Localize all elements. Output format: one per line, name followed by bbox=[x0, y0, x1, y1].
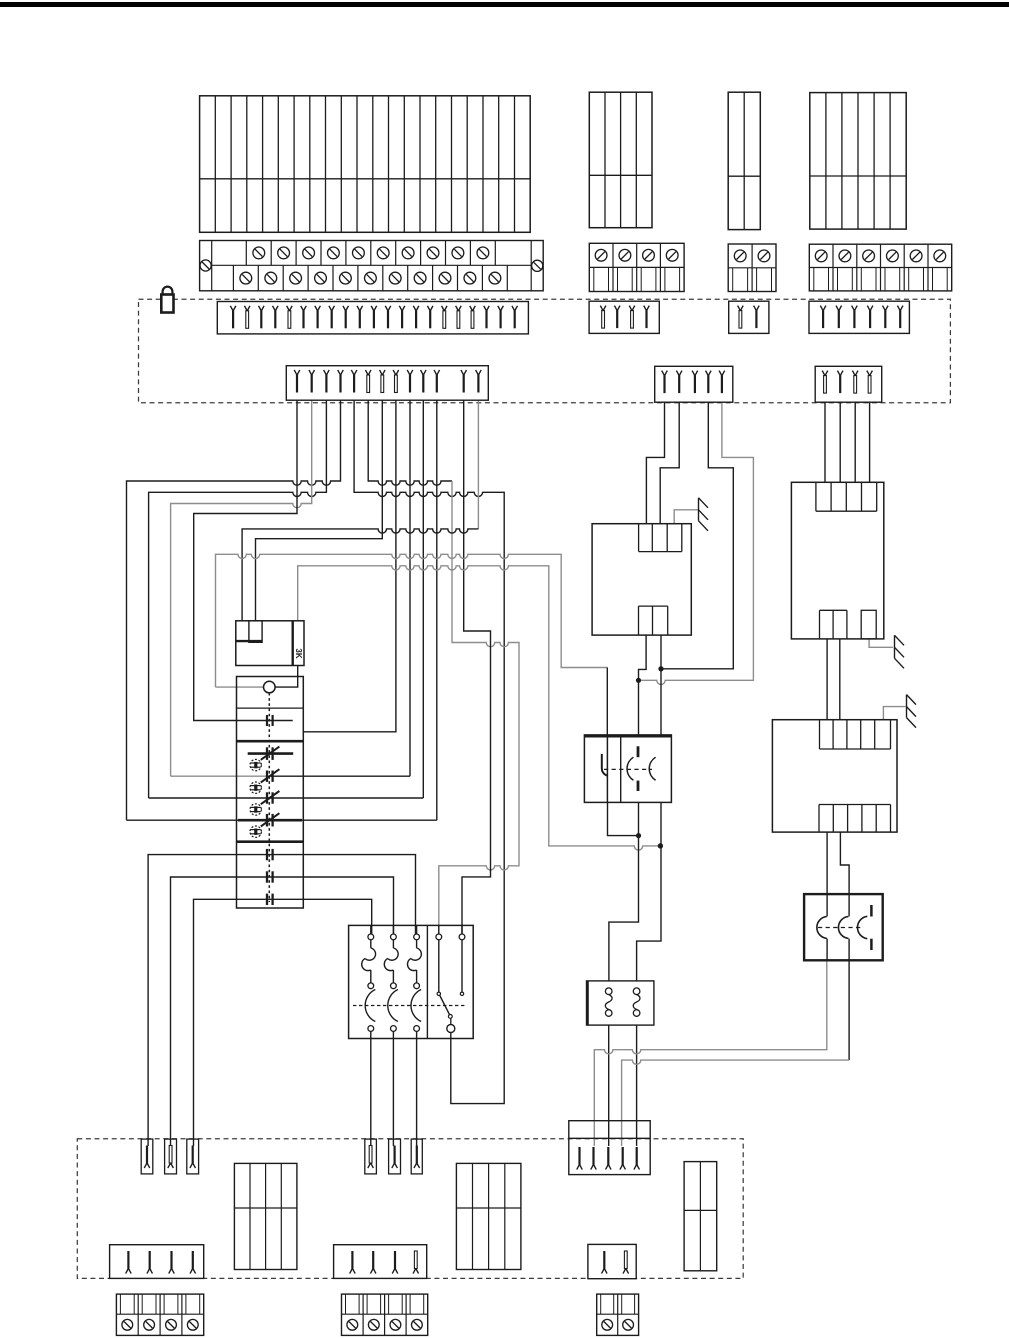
wire grey bus G2 bbox=[298, 566, 661, 850]
wire relay mid down to fuse1 bbox=[609, 802, 639, 991]
wire grey chain to aux switch pole1 bbox=[439, 481, 519, 934]
wire M1 ground lead (grey) bbox=[674, 510, 698, 524]
B1 pin 3 bbox=[324, 370, 330, 376]
wire B2 pin1 to module M1 bbox=[646, 402, 664, 523]
B4 pin 4 bbox=[620, 1164, 626, 1170]
switch pole 2 bbox=[392, 925, 394, 934]
wire switch pole1 bottom to connector bbox=[370, 1031, 372, 1146]
ground symbol at module M2 bbox=[894, 635, 896, 658]
wire lamp row4 bbox=[127, 819, 437, 821]
M2 bottom connector cells bbox=[819, 610, 821, 639]
wire pin7 to ignition module cell2 bbox=[256, 400, 383, 621]
ignition switch rotor circle bbox=[264, 681, 276, 693]
connector B4 bbox=[569, 1121, 650, 1175]
single-pin connector P3 bbox=[187, 1139, 199, 1174]
contactor box bbox=[804, 894, 883, 960]
B1 pin 5 bbox=[351, 370, 357, 376]
wire H3 bus to ignition module cell1 bbox=[242, 529, 478, 621]
connector A3 bbox=[729, 301, 769, 333]
fuse box bbox=[587, 981, 654, 1025]
junction relay out junction bbox=[636, 833, 641, 838]
screw terminal strip X4 bbox=[809, 244, 951, 291]
connector A2 bbox=[589, 301, 659, 333]
A1 pin 8 bbox=[329, 306, 335, 312]
wire M2 ground lead (grey) bbox=[869, 639, 893, 647]
wire relay right down to fuse2 bbox=[637, 802, 661, 991]
wire switch pole2 bottom to connector bbox=[392, 1031, 394, 1146]
wire pin1 to switch contact row left bus bbox=[194, 400, 297, 721]
wire pin12 to aux switch pole2 bbox=[462, 400, 491, 934]
A4 pin 4 bbox=[867, 306, 873, 312]
wire pin3 to lamp-row3 left bus bbox=[149, 400, 327, 798]
screw terminal strip X2 bbox=[589, 243, 684, 291]
B3 pin 3 bbox=[852, 371, 858, 377]
svg-text:3K: 3K bbox=[294, 648, 303, 658]
lamp switch row 1 bbox=[248, 752, 294, 755]
A1 pin 2 bbox=[244, 306, 250, 312]
relay socket arcs bbox=[627, 757, 633, 780]
terminal block TB-C bbox=[234, 1163, 297, 1269]
lamp switch row 3 bbox=[266, 792, 268, 803]
A1 pin 13 bbox=[399, 306, 405, 312]
B4 pin 2 bbox=[591, 1164, 597, 1170]
B3 pin 2 bbox=[837, 371, 843, 377]
wire cam row C to switch pole1 and connector bbox=[194, 899, 372, 1146]
cam contact row 1 bbox=[266, 849, 268, 860]
A1 pin 19 bbox=[484, 306, 490, 312]
B1 pin 2 bbox=[309, 370, 315, 376]
C1 pin 1 bbox=[126, 1268, 132, 1274]
C2 pin 4 bbox=[413, 1268, 419, 1274]
padlock icon bbox=[163, 287, 173, 295]
wire through contactor pole1 bbox=[826, 894, 828, 916]
aux switch actuator bbox=[440, 996, 450, 1015]
wire lamp row3 bbox=[149, 797, 424, 799]
junction B2 pin4 wire junction bbox=[658, 666, 663, 671]
B2 pin 5 bbox=[719, 371, 725, 377]
wire M2 out1 to M3 bbox=[826, 639, 828, 720]
junction grey-G2 to fuse wire bbox=[658, 843, 663, 848]
B1 pin 11 bbox=[434, 370, 440, 376]
wire pin6 bus H1 bbox=[368, 400, 452, 485]
wire M3 ground lead (grey) bbox=[883, 707, 905, 720]
A1 pin 20 bbox=[498, 306, 504, 312]
M3 bottom connector cells bbox=[818, 805, 820, 833]
B4 pin 5 bbox=[634, 1164, 640, 1170]
junction junction out2 bbox=[658, 666, 663, 671]
A1 pin 11 bbox=[371, 306, 377, 312]
single-pin connector P6 bbox=[411, 1139, 422, 1174]
junction grey wire junction bbox=[636, 678, 641, 683]
B3 pin 4 bbox=[867, 371, 873, 377]
harness dashed box (top) bbox=[139, 299, 951, 403]
ground symbol at module M3 bbox=[906, 695, 908, 718]
wire cam row A to switch pole3 and connector bbox=[148, 855, 415, 1146]
relay box bbox=[584, 735, 671, 803]
wire M3 out2 to contactor bbox=[840, 832, 849, 894]
terminal block TB3 bbox=[728, 92, 760, 229]
wire B3 pin4 to module M2 bbox=[869, 402, 871, 482]
A4 pin 1 bbox=[820, 306, 826, 312]
ground symbol at module M1 bbox=[698, 498, 700, 521]
A1 pin 4 bbox=[273, 306, 279, 312]
C2 pin 1 bbox=[350, 1268, 356, 1274]
A1 pin 3 bbox=[259, 306, 265, 312]
B2 pin 1 bbox=[662, 371, 668, 377]
connector A1 bbox=[217, 302, 528, 334]
wire fuse2 out to B4 pin5 bbox=[636, 1014, 638, 1147]
B1 pin 9 bbox=[407, 370, 413, 376]
A1 pin 14 bbox=[413, 306, 419, 312]
module M2 box bbox=[791, 482, 883, 639]
contactor dashed line bbox=[818, 927, 862, 929]
B1 pin 7 bbox=[380, 370, 386, 376]
ignition module 3K box bbox=[236, 621, 304, 666]
connector B1 bbox=[286, 366, 488, 401]
switch pole 1 bbox=[370, 925, 372, 934]
single-pin connector P1 bbox=[141, 1139, 153, 1174]
lamp switch row 2 bbox=[266, 771, 268, 782]
wire B3 pin3 to module M2 bbox=[854, 402, 856, 482]
relay actuation dashed line bbox=[604, 768, 652, 770]
C1 pin 2 bbox=[147, 1268, 153, 1274]
M1 bottom connector cells bbox=[638, 606, 640, 635]
harness dashed box (bottom) bbox=[77, 1139, 743, 1279]
contactor socket arcs bbox=[817, 917, 827, 939]
A4 pin 5 bbox=[883, 306, 889, 312]
connector C3 bbox=[588, 1244, 636, 1278]
B2 pin 2 bbox=[676, 371, 682, 377]
wire pin11 stem bbox=[436, 400, 438, 820]
cam contact row 2 bbox=[266, 871, 268, 882]
A4 pin 6 bbox=[897, 306, 903, 312]
wire pin9 stem bbox=[409, 400, 411, 776]
wire 3K module to ignition circle bbox=[275, 666, 297, 688]
A2 pin 2 bbox=[614, 306, 620, 312]
C2 pin 3 bbox=[392, 1268, 398, 1274]
A4 pin 2 bbox=[836, 306, 842, 312]
screw terminal strip S3 bbox=[597, 1294, 639, 1335]
screw terminal strip X1 bbox=[200, 241, 544, 291]
aux switch contacts bbox=[438, 925, 440, 934]
wire relay feed vertical bbox=[606, 668, 608, 737]
wire cam row B to switch pole2 and connector bbox=[171, 877, 394, 1146]
A1 pin 5 bbox=[287, 306, 293, 312]
ignition switch shaft (dashed) bbox=[268, 693, 270, 902]
B4 pin 1 bbox=[577, 1164, 583, 1170]
A3 pin 2 bbox=[754, 306, 760, 312]
wire contactor out left (grey) bbox=[594, 960, 827, 1146]
terminal block TB4 bbox=[810, 93, 906, 230]
B3 pin 1 bbox=[822, 371, 828, 377]
wire M2 out2 to M3 bbox=[839, 639, 841, 720]
wire G1 into ignition circle bbox=[216, 686, 264, 688]
A2 pin 3 bbox=[629, 306, 635, 312]
C1 pin 4 bbox=[190, 1268, 196, 1274]
terminal block TB-D bbox=[456, 1163, 521, 1269]
B1 pin 1 bbox=[294, 370, 300, 376]
ignition switch block bbox=[237, 677, 304, 909]
wire switch pole3 bottom to connector bbox=[416, 1031, 418, 1146]
wire pin13 stem (grey) bbox=[477, 400, 479, 529]
B2 pin 4 bbox=[706, 371, 712, 377]
M1 top connector cells bbox=[638, 524, 640, 552]
wire M3 out1 to contactor bbox=[826, 832, 828, 894]
A1 pin 15 bbox=[427, 306, 433, 312]
A1 pin 21 bbox=[512, 306, 518, 312]
B1 pin 8 bbox=[393, 370, 399, 376]
switch assembly dashed line bbox=[353, 1005, 466, 1007]
connector C1 bbox=[110, 1245, 204, 1279]
B1 pin 13 bbox=[476, 370, 482, 376]
module M3 box bbox=[772, 720, 897, 832]
B1 pin 10 bbox=[421, 370, 427, 376]
wire pin5 to aux switch common bbox=[354, 400, 504, 1104]
C3 pin 1 bbox=[602, 1268, 608, 1274]
M2 top connector cells bbox=[815, 482, 817, 511]
B1 pin 6 bbox=[365, 370, 371, 376]
A2 pin 4 bbox=[644, 306, 650, 312]
B1 pin 12 bbox=[461, 370, 467, 376]
terminal block TB1 bbox=[200, 96, 531, 233]
connector A4 bbox=[809, 301, 909, 333]
X1 end screws bbox=[200, 260, 211, 271]
wire lamp row2 (right half) bbox=[268, 775, 410, 777]
contact row section2 bbox=[266, 715, 268, 726]
wire pin10 stem bbox=[422, 400, 424, 798]
terminal block TB-E bbox=[684, 1162, 717, 1271]
cam contact row 3 bbox=[266, 894, 268, 905]
wire B3 pin2 to module M2 bbox=[839, 402, 841, 482]
wire pin8 to switch block row bbox=[303, 400, 396, 732]
screw terminal strip X3 bbox=[728, 244, 776, 292]
wire relay contact out bbox=[608, 802, 639, 835]
connector B3 bbox=[815, 366, 882, 402]
single-pin connector P5 bbox=[389, 1139, 401, 1174]
A2 pin 1 bbox=[600, 306, 606, 312]
A1 pin 18 bbox=[470, 306, 476, 312]
motor switch assembly box bbox=[349, 925, 474, 1038]
wire M1 out2 to relay bbox=[660, 635, 662, 736]
A1 pin 17 bbox=[456, 306, 462, 312]
single-pin connector P2 bbox=[165, 1139, 177, 1174]
B1 pin 4 bbox=[338, 370, 344, 376]
relay contact bbox=[606, 736, 608, 802]
wire B2 pin4 down to fuse net bbox=[661, 402, 733, 669]
screw terminal strip S1 bbox=[116, 1294, 203, 1335]
fuse at x=608.7 bbox=[605, 988, 612, 995]
A1 pin 9 bbox=[343, 306, 349, 312]
A1 pin 1 bbox=[230, 306, 236, 312]
wire grey bus G1 to ignition circle and relay bbox=[216, 554, 608, 687]
C3 pin 2 bbox=[623, 1268, 629, 1274]
wire contactor out right bbox=[848, 960, 850, 1060]
top header bar bbox=[0, 2, 1009, 7]
wire pin4 to lamp-row4 left bus bbox=[127, 400, 341, 820]
C1 pin 3 bbox=[169, 1268, 175, 1274]
X1 top row screws bbox=[253, 247, 265, 259]
A1 pin 7 bbox=[315, 306, 321, 312]
screw terminal strip S2 bbox=[342, 1294, 428, 1335]
module M1 box bbox=[592, 524, 691, 635]
lamp switch row 4 bbox=[238, 819, 302, 822]
wire M1 out1 to relay bbox=[639, 635, 647, 736]
M3 top connector cells bbox=[819, 720, 821, 749]
junction grey bus junction bbox=[658, 843, 663, 848]
wire fuse1 out to B4 pin3 bbox=[608, 1014, 610, 1147]
wire lamp row2 (left grey half) bbox=[171, 775, 268, 777]
A4 pin 3 bbox=[852, 306, 858, 312]
B4 pin 3 bbox=[606, 1164, 612, 1170]
X1 bottom row screws bbox=[240, 272, 252, 284]
A1 pin 12 bbox=[385, 306, 391, 312]
wire B2 pin2 to module M1 bbox=[660, 402, 679, 523]
A1 pin 16 bbox=[442, 306, 448, 312]
connector B2 bbox=[655, 366, 733, 402]
A3 pin 1 bbox=[738, 306, 744, 312]
C2 pin 2 bbox=[370, 1268, 376, 1274]
wire pin2 to lamp-row2 left bus (grey) bbox=[171, 400, 312, 776]
wire B3 pin1 to module M2 bbox=[824, 402, 826, 482]
terminal block TB2 bbox=[589, 92, 652, 228]
A1 pin 10 bbox=[357, 306, 363, 312]
switch pole 3 bbox=[416, 925, 418, 934]
wire B2 pin5 (grey) down bbox=[639, 402, 754, 684]
A1 pin 6 bbox=[301, 306, 307, 312]
wire through contactor pole2 bbox=[848, 894, 850, 916]
fuse at x=636.6 bbox=[633, 988, 640, 995]
B2 pin 3 bbox=[692, 371, 698, 377]
single-pin connector P4 bbox=[365, 1139, 377, 1174]
connector C2 bbox=[334, 1245, 427, 1279]
